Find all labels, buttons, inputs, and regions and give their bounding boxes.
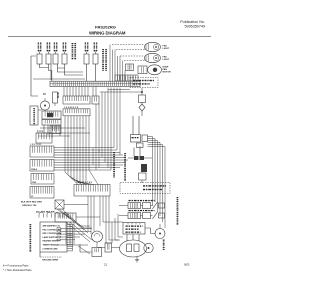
svg-text:GROUND WIRE: GROUND WIRE (42, 260, 59, 262)
vertical label wiring (124, 153, 126, 154)
lamp lead wires (dashed) (112, 44, 145, 46)
wire timer horizontals (36, 128, 90, 136)
defrost relay X box (55, 200, 64, 209)
wire lower link (33, 78, 85, 80)
svg-text:* = Non-Illustrated Parts: * = Non-Illustrated Parts (3, 268, 32, 272)
wire capacitor leads (80, 244, 92, 252)
upper-mid vertical drops (95, 104, 97, 148)
compressor left terminal box (105, 243, 112, 252)
harness cross verticals (93, 148, 99, 171)
svg-text:ADJ FRZ REF AIR: ADJ FRZ REF AIR (36, 211, 55, 214)
svg-text:P1 P2: P1 P2 (37, 131, 44, 133)
diagonal harness fan-out (57, 209, 92, 242)
wire heater H2 feed (119, 215, 128, 217)
svg-text:AIR DAMPER CTL: AIR DAMPER CTL (43, 225, 62, 228)
defrost heater H2 row label (129, 210, 131, 211)
bottom vertical bundle (87, 196, 89, 231)
thermal cutout T1 slash (153, 202, 158, 209)
defrost heater H2 (128, 213, 141, 219)
svg-text:CN8 A: CN8 A (31, 168, 37, 171)
dispenser junction pair (134, 156, 139, 160)
compressor run winding box (134, 244, 139, 252)
timer aux box (53, 92, 58, 103)
svg-text:LIGHT: LIGHT (163, 48, 170, 50)
vertical label defrost heater (177, 197, 179, 198)
svg-text:ORN BLU YEL: ORN BLU YEL (22, 205, 37, 207)
svg-text:FRS20ZRG: FRS20ZRG (95, 25, 116, 30)
wire S1 hooks (40, 64, 52, 80)
small vertical label (57, 93, 58, 94)
defrost heater H1 (128, 203, 141, 209)
svg-text:9/02: 9/02 (184, 263, 190, 267)
connector block CN2 (hatched) (115, 75, 138, 81)
temperature control box (40, 222, 67, 252)
header rule (8, 35, 211, 37)
dispenser solenoid chain (141, 164, 147, 172)
wire heater H1 feed (119, 205, 128, 207)
svg-text:WIRING DIAGRAM: WIRING DIAGRAM (89, 31, 126, 36)
harness horizontal wires (54, 148, 128, 171)
svg-text:BLK WHT RED GRN: BLK WHT RED GRN (21, 202, 42, 204)
overload relay box (123, 223, 145, 235)
lamp L2 freezer/refrigerator light (145, 53, 161, 62)
svg-text:21: 21 (104, 263, 108, 267)
wire left riser (31, 56, 38, 96)
bottom harness horizontals (55, 229, 92, 255)
label condenser fan (163, 240, 165, 241)
wire S2 hooks (58, 64, 84, 75)
wire S3 hooks (87, 64, 96, 81)
center vertical wire bundle (64, 116, 66, 172)
vertical label LIGHT SWITCH (right) (102, 49, 104, 50)
wire bus to thermostat (100, 90, 142, 93)
icemaker dashed enclosure (130, 78, 158, 88)
svg-text:1 3 5 7 9 11: 1 3 5 7 9 11 (30, 144, 42, 146)
svg-text:COMMON LINE: COMMON LINE (43, 248, 59, 250)
svg-text:REF CONTROL SW: REF CONTROL SW (43, 233, 62, 235)
control box stub rail (72, 225, 74, 251)
label for S2 (54, 43, 55, 44)
svg-text:HEATER SWITCH: HEATER SWITCH (43, 240, 61, 243)
connector CN4 (63, 109, 90, 116)
wire drops bus to CN3 (64, 87, 96, 97)
wire dispenser junction (128, 157, 152, 159)
junction node A (141, 91, 143, 93)
connector CN11 long (74, 185, 110, 197)
connector CN6 (36, 133, 52, 143)
compressor start winding box (127, 244, 132, 252)
timer right terminal box (50, 126, 61, 134)
lamp L1 freezer/refrigerator light (145, 42, 161, 51)
fresh food fan motor M4 (92, 231, 103, 242)
bottom horizontal links (64, 205, 123, 241)
compressor start relay (144, 243, 153, 252)
right vertical harness wires (148, 137, 166, 229)
timer contact box (42, 111, 61, 119)
defrost thermostat chain (141, 88, 143, 95)
timer cam box (30, 106, 38, 125)
svg-text:LIGHT: LIGHT (163, 59, 170, 61)
label for S1 (38, 43, 39, 44)
main harness connector strip (50, 81, 140, 86)
small junction box J1 (126, 64, 134, 71)
svg-text:1 2 3 4 5 6 7 8 9: 1 2 3 4 5 6 7 8 9 (76, 181, 93, 184)
wire S1 drop to bus (49, 71, 52, 82)
svg-text:Publication No.: Publication No. (180, 20, 205, 24)
connector CN7 (30, 146, 54, 157)
svg-text:TIMER FEED LN: TIMER FEED LN (43, 245, 59, 247)
vertical label main harness (113, 152, 115, 153)
wires left of overload (105, 214, 123, 243)
light switch S3 pair (84, 54, 89, 64)
svg-text:MOTOR: MOTOR (163, 71, 172, 73)
thermal cutout T2 slash (153, 212, 158, 219)
door switch block (131, 135, 141, 143)
connector CN9 (31, 174, 54, 185)
wire to compressor terminal (98, 247, 120, 249)
run capacitor C1 (92, 248, 102, 257)
compressor ground (135, 257, 139, 262)
bottom harness pin list (57, 228, 60, 230)
connector CN10 (30, 187, 54, 199)
dispenser dashed box (120, 183, 170, 194)
wire harness into compressor zone (127, 228, 151, 241)
vertical label LIGHT SWITCH (left) (72, 43, 74, 44)
compressor motor ellipse (120, 240, 147, 257)
bottom harness drops (66, 222, 74, 245)
light switch S1 pair (37, 54, 42, 64)
svg-text:# = Functioning Parts: # = Functioning Parts (3, 263, 29, 267)
label for S3 (85, 43, 86, 44)
connector CN3 (63, 96, 90, 104)
control box right stubs (67, 225, 73, 251)
condenser fan motor M3 (155, 229, 165, 239)
svg-text:LAMP SWITCH: LAMP SWITCH (43, 236, 58, 239)
vertical wire bundle to lamps (109, 45, 111, 82)
temperature control header symbols (39, 212, 43, 217)
control box left vertical label (30, 224, 32, 225)
diagonal wires to bottom connector (65, 170, 98, 185)
wires from timer cluster (38, 110, 60, 138)
svg-text:5995350749: 5995350749 (184, 25, 205, 29)
connector CN5 small (92, 96, 99, 104)
timer terminal row (42, 120, 61, 126)
control box bottom lead (39, 252, 41, 257)
terminal box H2 (159, 213, 165, 218)
connector CN12 (55, 213, 76, 222)
light switch S2 pair (53, 54, 58, 64)
defrost heater H1 row label (129, 200, 131, 201)
defrost timer motor M2 (40, 101, 49, 110)
wire from door switch (133, 116, 140, 158)
svg-text:FRZ CONTROL SW: FRZ CONTROL SW (43, 229, 62, 231)
svg-text:1 2 3 4 5 6 7 8: 1 2 3 4 5 6 7 8 (64, 106, 79, 109)
connector CN8 (30, 160, 54, 172)
terminal box H1 (159, 203, 165, 208)
evaporator fan motor M1 (138, 66, 147, 74)
